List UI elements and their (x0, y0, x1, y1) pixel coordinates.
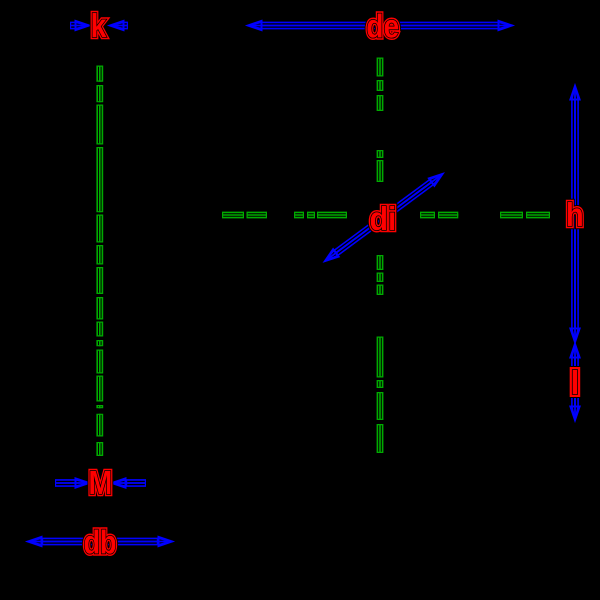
label M (88, 464, 112, 501)
dimension line db (28, 537, 172, 546)
centerline horizontal (222, 212, 550, 219)
svg-text:l: l (570, 364, 579, 401)
svg-text:db: db (84, 524, 117, 561)
label db (84, 524, 117, 561)
dimension line de (248, 21, 512, 30)
dimension line l (570, 344, 579, 420)
label di (370, 200, 397, 237)
svg-text:M: M (88, 464, 112, 501)
centerline middle vertical (377, 58, 384, 454)
svg-text:k: k (91, 7, 108, 44)
label k (91, 7, 108, 44)
svg-text:de: de (366, 8, 399, 45)
svg-text:h: h (566, 196, 584, 233)
svg-text:di: di (370, 200, 397, 237)
label de (366, 8, 399, 45)
dimension arrows k (70, 21, 128, 30)
label l (570, 364, 579, 401)
dimension line h (570, 86, 579, 342)
label h (566, 196, 584, 233)
dimension line di (diagonal) (325, 174, 443, 261)
centerline left vertical (96, 66, 103, 457)
dimension arrows M (55, 478, 146, 487)
